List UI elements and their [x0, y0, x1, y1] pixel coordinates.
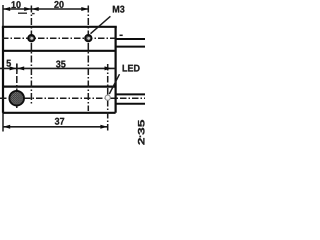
part inner horizontal edge B [3, 85, 116, 87]
right attachment rail top edge [116, 38, 145, 40]
part body right edge [114, 27, 116, 113]
LED leader line [109, 74, 119, 94]
LED small circle [105, 95, 110, 100]
horizontal optical axis centerline (dash-dot) [0, 97, 145, 99]
right tab top edge [116, 93, 145, 95]
part body bottom edge [3, 112, 116, 114]
dimension line bottom (37) [3, 126, 108, 128]
right tab bottom edge [116, 103, 145, 105]
label M3 [113, 6, 125, 13]
arrow 10 left [3, 7, 10, 11]
label 5 [6, 60, 10, 67]
M3 hole 2 [85, 35, 91, 41]
dot of 2.35 [139, 136, 141, 138]
arrow 35 left [17, 66, 24, 70]
lens crosshatched circle [9, 91, 24, 106]
label LED [123, 65, 140, 72]
wire left extension line + part left edge x=3 [2, 5, 4, 132]
ghost segment a [18, 12, 27, 14]
M3 hole 2 thread arc [87, 37, 90, 41]
LED vertical centerline x=107.7 [107, 64, 109, 132]
arrow 10 right [24, 7, 31, 11]
label dim 3 (rotated) [138, 128, 145, 135]
part inner horizontal edge A [3, 50, 116, 52]
part body top edge [2, 26, 117, 28]
hole2 vertical centerline x=88.3 [87, 6, 89, 112]
dimension line top (10 / 20) [3, 8, 88, 10]
M3 hole 1 thread arc [30, 37, 33, 41]
label dim 2 (rotated) [138, 138, 144, 145]
M3 hole 1 [28, 35, 34, 41]
arrow 5 right [10, 66, 17, 70]
label 35 [56, 61, 66, 68]
M3 leader line [91, 16, 111, 33]
small dash mark above rail [120, 34, 123, 36]
holes horizontal centerline [2, 37, 116, 39]
ghost segment b [32, 13, 35, 15]
arrow 37 left [3, 125, 10, 129]
label dim 5 (rotated) [138, 120, 144, 127]
right attachment rail lower edge [116, 46, 145, 48]
arrow 20 left [32, 7, 39, 11]
lens vertical centerline x=16.8 [16, 64, 18, 111]
extension tick x=16.9 [16, 64, 18, 73]
hole1 vertical centerline x=31.4 [30, 6, 32, 105]
arrow 20 right [81, 7, 88, 11]
arrow 37 right [100, 125, 107, 129]
label 20 [54, 1, 63, 8]
arrow 35 right [105, 66, 112, 70]
label 37 [55, 118, 64, 125]
label 10 [12, 1, 21, 8]
dimension line middle (5 / 35) [0, 67, 116, 69]
